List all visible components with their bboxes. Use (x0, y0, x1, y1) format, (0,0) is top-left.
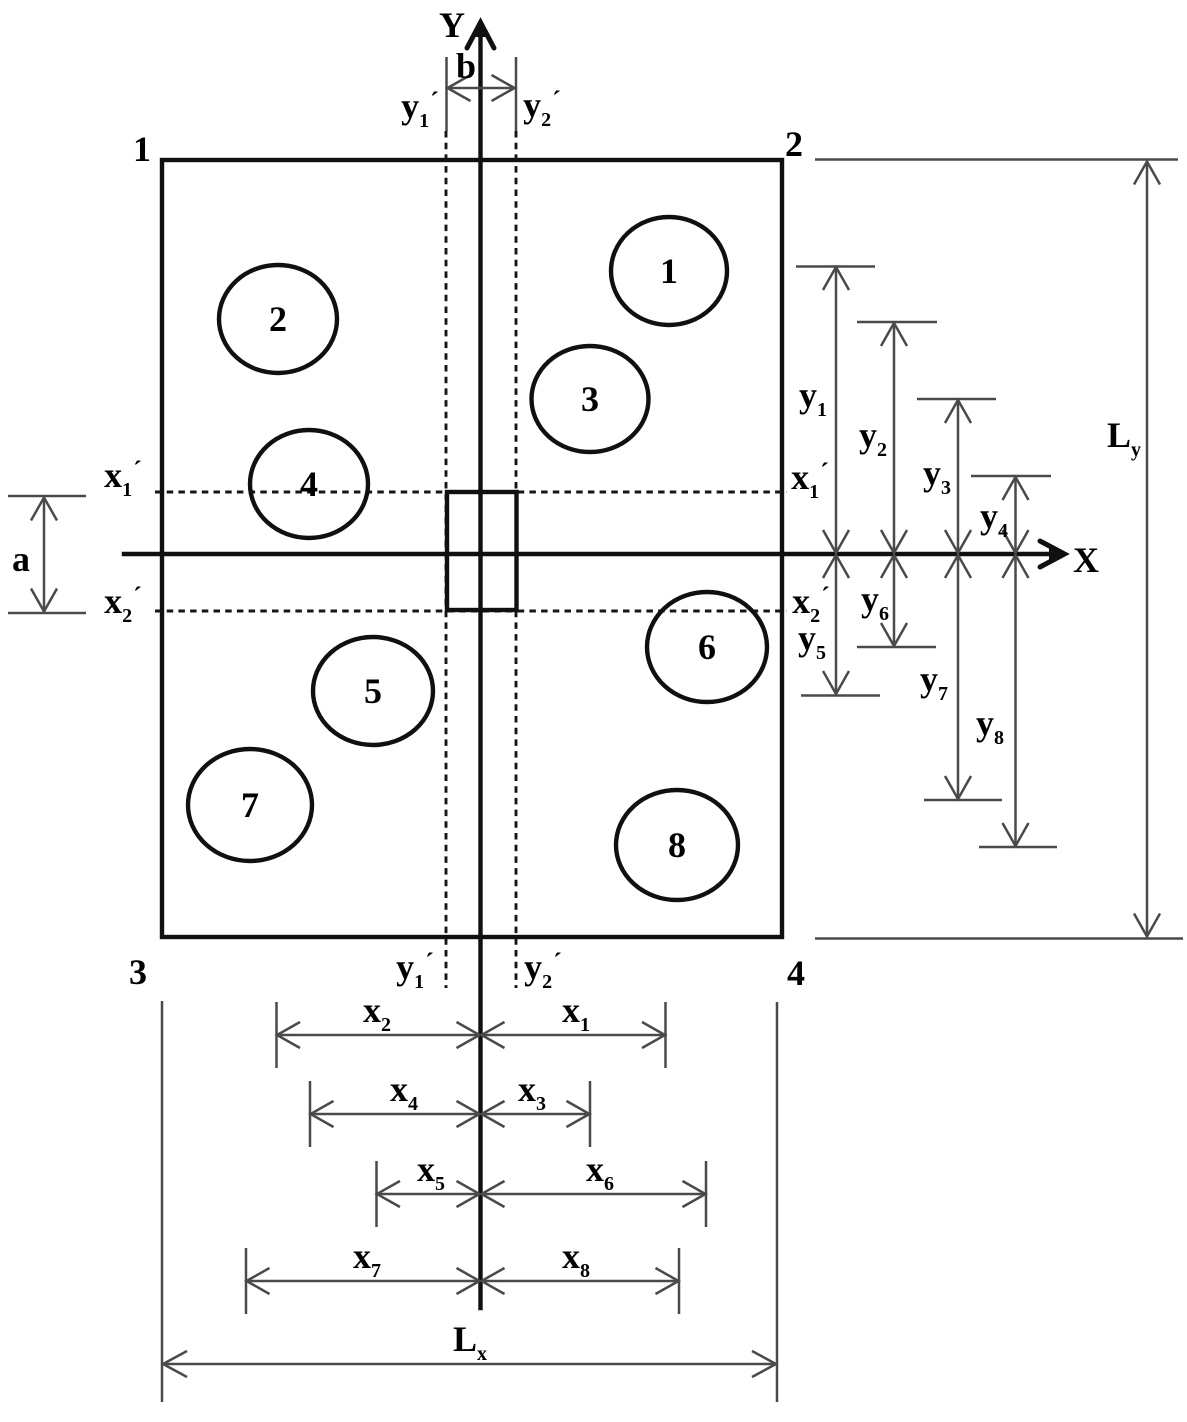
a dimension label (12, 539, 30, 579)
X axis label (1073, 540, 1099, 580)
central reference rectangle (447, 492, 517, 610)
a dimension extension line top (8, 495, 86, 498)
dimension x8 label (562, 1236, 590, 1282)
dimension y7 label (920, 659, 948, 705)
corner label 3 (129, 952, 147, 992)
dimension x8 line+arrows (482, 1268, 679, 1294)
dimension x2 line+arrows (277, 1022, 480, 1048)
dimension y2 label (859, 415, 887, 461)
svg-text:1: 1 (133, 129, 151, 169)
dimension x7 tick (left) (245, 1248, 248, 1314)
a dimension arrow down (31, 589, 57, 612)
svg-text:b: b (456, 46, 476, 86)
plate outline rectangle (workpiece) (162, 160, 782, 937)
svg-text:4: 4 (787, 953, 805, 993)
dimension x5 tick (left) (375, 1161, 378, 1227)
dimension x6 tick (right) (705, 1161, 708, 1227)
corner label 1 (133, 129, 151, 169)
label x2' (left) (104, 581, 142, 627)
Y axis line (478, 30, 482, 1308)
dimension y5 line+arrows+tick (801, 555, 880, 696)
label x2' (right) (792, 581, 830, 627)
label y1' (bottom) (396, 947, 434, 993)
dimension x6 line+arrows (482, 1181, 706, 1207)
hole circle 1 (611, 217, 727, 325)
label y2' (bottom) (524, 947, 562, 993)
X axis line (124, 552, 1050, 556)
hole circle 8 (616, 790, 738, 900)
a dimension line (43, 497, 46, 612)
dimension x3 tick (right) (589, 1081, 592, 1147)
hole circle 3 (532, 346, 649, 452)
dimension x3 label (518, 1069, 546, 1115)
svg-text:4: 4 (300, 464, 318, 504)
a dimension arrow up (31, 498, 57, 521)
dimension y4 line+arrows+tick (971, 476, 1051, 553)
svg-text:5: 5 (364, 671, 382, 711)
dashed line x1' (horizontal) (155, 491, 787, 494)
dimension y1 line+arrows+tick (796, 267, 875, 554)
svg-text:a: a (12, 539, 30, 579)
lower extension line corner 4 (776, 1002, 779, 1402)
dimension y3 label (923, 453, 951, 499)
svg-text:7: 7 (241, 785, 259, 825)
b dimension arrow right (492, 75, 515, 101)
dimension x2 tick (left) (275, 1002, 278, 1068)
dimension y8 label (976, 703, 1004, 749)
dimension y2 line+arrows+tick (857, 322, 937, 553)
label x1' (right) (791, 457, 829, 503)
dimension x1 line+arrows (482, 1022, 666, 1048)
dimension y7 line+arrows+tick (924, 555, 1002, 800)
dimension x6 label (586, 1149, 614, 1195)
label y2' (top) (523, 85, 561, 131)
b dimension label (456, 46, 476, 86)
dashed line x2' (horizontal) (155, 610, 787, 613)
svg-text:8: 8 (668, 825, 686, 865)
svg-text:1: 1 (660, 251, 678, 291)
svg-text:3: 3 (129, 952, 147, 992)
svg-text:2: 2 (269, 299, 287, 339)
dimension y8 line+arrows+tick (979, 555, 1057, 847)
dimension x7 label (353, 1236, 381, 1282)
label y1' (top) (401, 86, 439, 132)
hole circle 7 (188, 749, 312, 861)
dimension x4 tick (left) (309, 1081, 312, 1147)
Ly dimension line (1146, 162, 1149, 936)
b dimension extension line right (515, 57, 518, 131)
X axis arrowhead (1040, 541, 1066, 567)
dimension y6 line+arrows+tick (857, 555, 936, 647)
dimension y3 line+arrows+tick (917, 399, 996, 553)
Ly extension line bottom (815, 937, 1183, 940)
Lx dimension line (163, 1351, 776, 1377)
hole circle 6 (647, 592, 767, 702)
dimension x1 tick (right) (664, 1002, 667, 1068)
Y axis arrowhead (467, 22, 494, 49)
Ly arrow down (1134, 914, 1160, 937)
corner label 4 (787, 953, 805, 993)
dimension x4 label (390, 1069, 418, 1115)
dimension y4 label (980, 496, 1008, 542)
hole circle 4 (250, 430, 368, 538)
b dimension arrow left (448, 75, 471, 101)
label x1' (left) (104, 455, 142, 501)
corner label 2 (785, 124, 803, 164)
dimension x1 label (562, 990, 590, 1036)
Lx dimension label (453, 1319, 487, 1365)
svg-text:Y: Y (439, 5, 465, 45)
b dimension line (447, 87, 515, 90)
Ly extension line top (815, 158, 1178, 161)
svg-text:6: 6 (698, 627, 716, 667)
dimension x2 label (363, 990, 391, 1036)
dimension x3 line+arrows (482, 1101, 590, 1127)
dimension y1 label (799, 375, 827, 421)
lower extension line corner 3 (161, 1001, 164, 1402)
Y axis label (439, 5, 465, 45)
dimension x7 line+arrows (247, 1268, 480, 1294)
dimension x4 line+arrows (311, 1101, 480, 1127)
svg-text:X: X (1073, 540, 1099, 580)
dimension x5 label (417, 1149, 445, 1195)
svg-text:3: 3 (581, 379, 599, 419)
dimension x5 line+arrows (377, 1181, 480, 1207)
dashed line y2' (vertical) (515, 131, 518, 988)
a dimension extension line bottom (8, 612, 86, 615)
svg-text:2: 2 (785, 124, 803, 164)
dimension y5 label (798, 618, 826, 664)
hole circle 2 (219, 265, 337, 373)
Ly dimension label (1107, 415, 1141, 461)
dashed line y1' (vertical) (445, 131, 448, 988)
dimension y6 label (861, 579, 889, 625)
Ly arrow up (1134, 162, 1160, 185)
dimension x8 tick (right) (678, 1248, 681, 1314)
b dimension extension line left (445, 57, 448, 131)
hole circle 5 (313, 637, 433, 745)
